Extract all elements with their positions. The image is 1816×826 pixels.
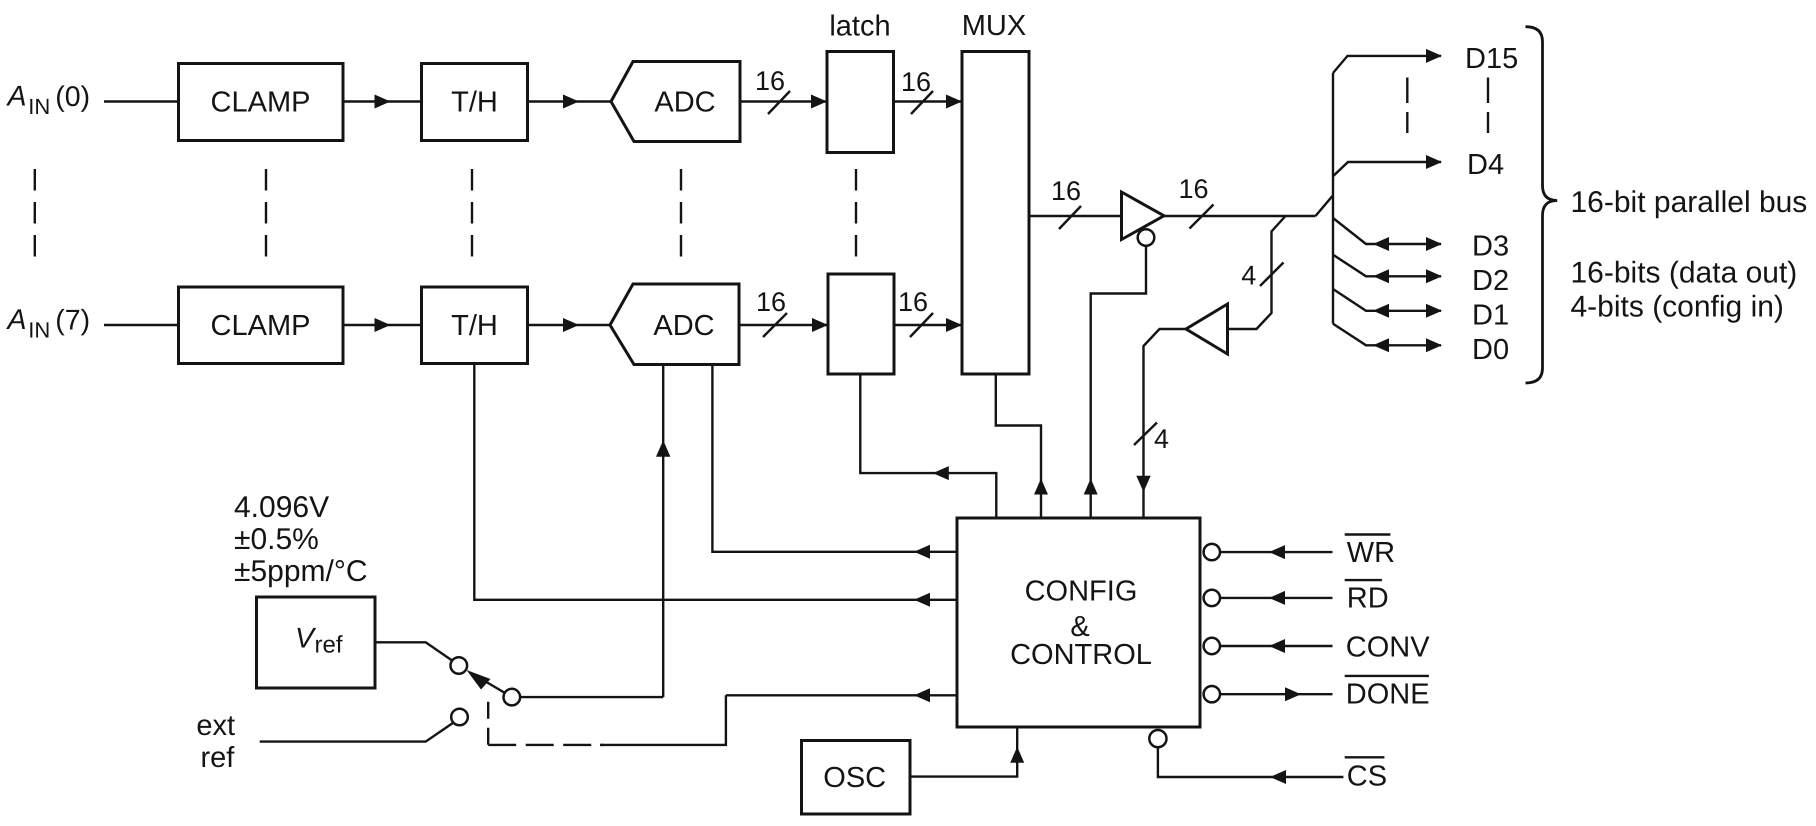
wire CLAMP2 to T/H2 (343, 324, 422, 326)
svg-text:ref: ref (201, 742, 236, 774)
latch block latch1 (827, 52, 894, 153)
pin label RD with overline (1347, 583, 1389, 615)
wire junction diagonal to bus spine (1316, 195, 1334, 216)
svg-text:CONV: CONV (1346, 632, 1430, 664)
config and control block U5 (957, 518, 1200, 727)
switch contact node ext ref (451, 709, 468, 726)
continuation dashes column ADC (680, 169, 682, 257)
wire branch D4 (1333, 162, 1441, 176)
svg-text:16: 16 (1178, 174, 1208, 204)
svg-text:ADC: ADC (654, 87, 715, 119)
continuation dashes column latch (855, 169, 857, 257)
note 16-bits data out (1571, 257, 1798, 290)
wire ext ref dashed alternative path (487, 702, 489, 745)
wire latch2 to MUX, 16-bit (894, 324, 962, 326)
svg-text:D1: D1 (1472, 300, 1509, 332)
pin bubble WR (1204, 544, 1220, 560)
pin bubble CS (1149, 730, 1166, 747)
svg-text:±0.5%: ±0.5% (234, 523, 319, 556)
bus continuation dashes right (1487, 78, 1489, 134)
oscillator block OSC (802, 741, 911, 815)
T/H block U1 (422, 64, 528, 141)
svg-text:CONFIG: CONFIG (1025, 576, 1138, 608)
svg-text:16: 16 (901, 67, 931, 97)
wire reference select to CONFIG (726, 694, 957, 696)
wire CONFIG to T/H2 control (474, 364, 957, 600)
svg-text:IN: IN (28, 318, 50, 343)
svg-text:CS: CS (1347, 760, 1387, 792)
pin label CONV (1346, 632, 1430, 664)
ADC block ADC1 (611, 62, 740, 142)
svg-text:D4: D4 (1467, 149, 1504, 181)
continuation dashes column CLAMP (265, 169, 267, 257)
svg-text:4.096V: 4.096V (234, 491, 329, 524)
node ext ref label (196, 710, 235, 774)
svg-text:OSC: OSC (823, 762, 886, 794)
bus spine (1332, 73, 1334, 324)
wire 4-bit tap from bus (1228, 216, 1286, 329)
svg-text:(7): (7) (55, 304, 90, 336)
wire CONFIG to ADC2 control (712, 365, 957, 552)
node A_IN(7) label (6, 304, 91, 342)
wire latch1 to MUX, 16-bit (894, 100, 963, 102)
tri-state buffer U3 (1122, 192, 1165, 240)
svg-text:CLAMP: CLAMP (211, 310, 311, 342)
wire MUX select from CONFIG (996, 374, 1041, 518)
wire ADC2 reference input (662, 365, 664, 698)
wire T/H2 to ADC2 (528, 324, 611, 326)
svg-text:DONE: DONE (1346, 679, 1430, 711)
wire CONV input (1220, 645, 1333, 647)
continuation dashes column T/H (471, 169, 473, 257)
wire MUX to buffer U3, 16-bit (1029, 215, 1122, 217)
config input buffer U4 (1186, 304, 1228, 354)
wire CS input (1158, 747, 1344, 777)
continuation dashes column A_IN (34, 169, 36, 257)
pin label DONE with overline (1346, 679, 1430, 711)
T/H block U2 (422, 287, 528, 364)
clamp block CLAMP2 (179, 287, 344, 364)
wire branch D2 bidirectional (1333, 255, 1441, 277)
wire branch D0 bidirectional (1333, 324, 1441, 346)
svg-text:WR: WR (1347, 537, 1395, 569)
wire ext ref to switch (260, 723, 454, 742)
pin label CS with overline (1347, 760, 1387, 792)
wire WR input (1220, 551, 1333, 553)
pin bubble CONV (1204, 638, 1220, 654)
svg-text:RD: RD (1347, 583, 1389, 615)
pin bubble RD (1204, 590, 1220, 606)
svg-text:4-bits (config in): 4-bits (config in) (1571, 291, 1784, 324)
svg-text:T/H: T/H (451, 87, 498, 119)
note 4-bits config in (1571, 291, 1784, 324)
svg-text:IN: IN (28, 94, 50, 119)
svg-text:±5ppm/°C: ±5ppm/°C (234, 555, 368, 588)
svg-text:A: A (6, 81, 27, 113)
switch contact node Vref (451, 657, 468, 674)
wire DONE output (1220, 693, 1333, 695)
wire U4 output to CONFIG, 4-bit (1144, 329, 1187, 518)
wire branch D3 bidirectional (1333, 218, 1441, 244)
clamp block CLAMP1 (179, 64, 344, 141)
wire U3 output, 16-bit (1164, 215, 1316, 217)
svg-text:16-bits (data out): 16-bits (data out) (1571, 257, 1798, 290)
wire Vref to switch (375, 642, 453, 661)
reference note 4.096V (234, 491, 368, 588)
ADC block ADC2 (610, 284, 739, 365)
note 16-bit parallel bus (1571, 186, 1808, 219)
wire OSC to CONFIG (910, 727, 1017, 777)
svg-text:16-bit parallel bus: 16-bit parallel bus (1571, 186, 1808, 219)
svg-text:16: 16 (756, 287, 786, 317)
svg-text:16: 16 (755, 66, 785, 96)
wire CLAMP1 to T/H1 (343, 100, 422, 102)
wire A_IN(7) to CLAMP2 (104, 324, 178, 326)
wire A_IN(0) to CLAMP1 (104, 100, 178, 102)
svg-text:latch: latch (829, 11, 890, 43)
wire ADC2 to latch2, 16-bit (739, 324, 828, 326)
svg-text:D0: D0 (1472, 334, 1509, 366)
svg-text:CLAMP: CLAMP (211, 87, 311, 119)
latch block latch2 (828, 274, 894, 374)
switch wiper node (504, 689, 521, 706)
svg-text:D3: D3 (1472, 231, 1509, 263)
svg-text:D15: D15 (1465, 43, 1518, 75)
svg-text:ext: ext (196, 710, 235, 742)
bus continuation dashes left (1406, 78, 1408, 134)
svg-text:CONTROL: CONTROL (1010, 639, 1152, 671)
wire T/H1 to ADC1 (528, 100, 612, 102)
svg-text:4: 4 (1154, 424, 1169, 454)
wire ADC1 to latch1, 16-bit (740, 100, 827, 102)
svg-text:D2: D2 (1472, 265, 1509, 297)
wire RD input (1220, 597, 1333, 599)
node A_IN(0) label (6, 81, 91, 119)
brace 16-bit parallel bus (1526, 27, 1558, 383)
svg-text:T/H: T/H (451, 310, 498, 342)
svg-text:MUX: MUX (962, 10, 1026, 42)
svg-text:16: 16 (898, 287, 928, 317)
svg-text:(0): (0) (55, 81, 90, 113)
vref block (257, 597, 376, 688)
pin bubble DONE (1204, 686, 1220, 702)
wire branch D15 (1333, 56, 1441, 73)
svg-text:16: 16 (1051, 176, 1081, 206)
svg-text:ref: ref (315, 632, 343, 659)
svg-text:ADC: ADC (653, 310, 714, 342)
wire switch common to ADC2 ref (520, 696, 663, 698)
enable bubble of U3 (1138, 229, 1155, 246)
wire latch control from CONFIG (860, 374, 996, 518)
pin label WR with overline (1347, 537, 1395, 569)
mux block MUX (962, 52, 1029, 375)
switch wiper arm with arrow (483, 680, 505, 693)
svg-text:4: 4 (1241, 261, 1256, 291)
wire U3 enable from CONFIG (1091, 246, 1146, 518)
svg-text:A: A (6, 304, 27, 336)
wire branch D1 bidirectional (1333, 289, 1441, 311)
